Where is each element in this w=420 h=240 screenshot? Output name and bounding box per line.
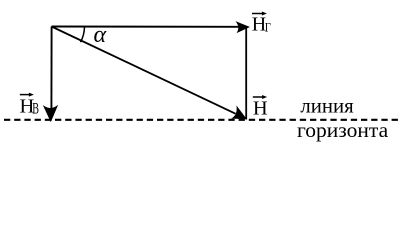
svg-text:В: В xyxy=(32,99,39,117)
svg-text:α: α xyxy=(94,22,107,48)
svg-text:горизонта: горизонта xyxy=(297,118,389,142)
svg-text:Н: Н xyxy=(252,14,266,36)
svg-text:Н: Н xyxy=(253,98,268,120)
svg-text:линия: линия xyxy=(300,94,354,117)
svg-text:Г: Г xyxy=(265,21,271,35)
